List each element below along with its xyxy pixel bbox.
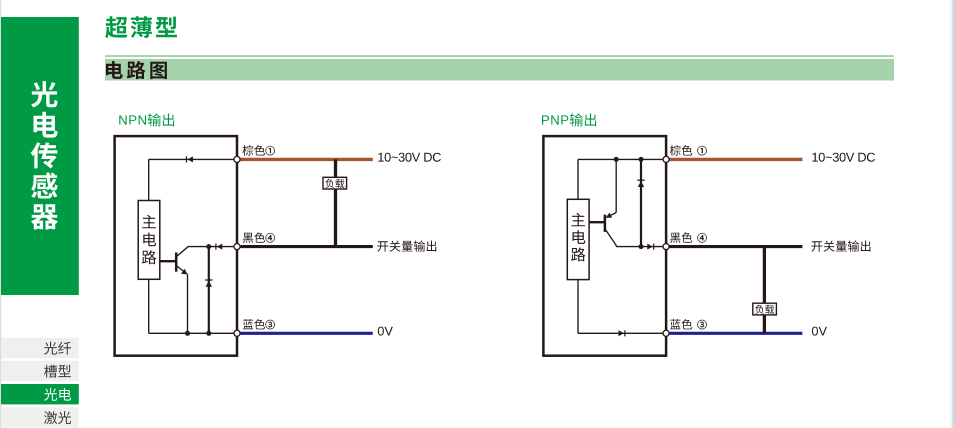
NPN wire label 蓝色③ — [243, 319, 275, 330]
PNP text 0V — [812, 327, 827, 336]
PNP wire label 蓝色③ — [670, 319, 707, 330]
PNP brown wire — [669, 158, 802, 161]
PNP junction dot top 2 — [639, 157, 644, 162]
NPN diode D2 on black line — [217, 244, 222, 250]
NPN black wire — [240, 245, 373, 248]
PNP inner bottom wire — [578, 332, 663, 334]
NPN inner bottom wire — [149, 332, 234, 334]
PNP diode D5 on black line — [647, 244, 652, 250]
PNP terminal brown — [663, 156, 669, 162]
PNP junction dot black line — [639, 244, 644, 249]
PNP main-circuit block 主电路 — [567, 199, 589, 279]
NPN terminal blue — [234, 330, 240, 336]
page right edge shading — [949, 0, 955, 428]
PNP emitter arrowhead — [606, 213, 613, 218]
NPN diode D1 on brown line — [188, 156, 193, 162]
PNP transistor Q2 base bar — [604, 215, 607, 232]
NPN sensor outline box — [115, 136, 237, 356]
PNP wire label 棕色① — [670, 145, 707, 156]
NPN main-circuit block 主电路 — [138, 201, 160, 280]
NPN emitter arrowhead — [181, 269, 188, 275]
green rule — [105, 55, 894, 57]
PNP wire label 黑色④ — [670, 232, 707, 243]
PNP sensor outline box — [543, 136, 666, 356]
label NPN输出 — [119, 113, 174, 126]
PNP protection branch wire — [640, 159, 642, 246]
PNP junction dot top 1 — [614, 157, 619, 162]
sidebar green bar — [1, 17, 79, 295]
NPN junction dot bottom 1 — [185, 331, 190, 336]
NPN terminal black — [234, 244, 240, 250]
NPN load wire — [334, 159, 337, 246]
NPN brown wire — [240, 158, 373, 161]
NPN inner black wire — [188, 246, 235, 248]
PNP text 开关量输出 — [811, 241, 870, 252]
NPN diode D3 upward — [206, 281, 212, 287]
label PNP输出 — [542, 113, 596, 126]
NPN text 10~30V DC — [378, 153, 441, 162]
PNP blue wire — [669, 332, 802, 335]
PNP diode D4 on blue line — [619, 330, 624, 336]
title 超薄型 — [105, 16, 177, 38]
NPN transistor Q1 base bar — [175, 252, 178, 271]
PNP black wire — [669, 245, 802, 248]
NPN junction dot black line — [206, 244, 211, 249]
NPN inner left vertical wire — [148, 159, 150, 333]
NPN wire label 棕色① — [243, 145, 275, 156]
NPN emitter vertical wire — [187, 274, 189, 334]
PNP inner black wire — [616, 246, 663, 248]
NPN transistor Q1 emitter — [177, 266, 186, 273]
PNP transistor Q2 emitter — [607, 213, 616, 218]
PNP terminal black — [663, 244, 669, 250]
NPN blue wire — [240, 332, 373, 335]
banner 电路图 — [105, 59, 894, 81]
PNP emitter vertical wire — [615, 159, 617, 212]
menu item 激光 — [1, 407, 79, 427]
PNP load wire — [763, 247, 766, 334]
NPN text 0V — [378, 327, 393, 336]
menu item 槽型 — [1, 361, 79, 381]
NPN transistor Q1 collector — [177, 247, 188, 257]
menu item 光纤 — [1, 338, 79, 358]
PNP transistor Q2 collector — [606, 230, 617, 247]
PNP inner left vertical wire — [577, 159, 579, 333]
PNP transistor Q2 base lead — [589, 221, 604, 223]
NPN text 开关量输出 — [377, 241, 436, 252]
sidebar vertical text 光电传感器 — [31, 81, 58, 229]
NPN transistor Q1 base lead — [160, 260, 176, 262]
NPN wire label 黑色④ — [243, 232, 275, 243]
NPN junction dot bottom 2 — [206, 331, 211, 336]
PNP diode D6 upward — [638, 181, 644, 187]
NPN terminal brown — [234, 156, 240, 162]
page left edge line — [0, 0, 1, 428]
menu item 光电 — [1, 384, 79, 404]
PNP load box 负载 — [753, 303, 777, 315]
NPN inner top wire — [149, 158, 234, 160]
NPN load box 负载 — [323, 177, 347, 189]
NPN protection branch wire — [208, 247, 210, 334]
PNP text 10~30V DC — [812, 153, 875, 162]
PNP terminal blue — [663, 330, 669, 336]
PNP inner top wire — [578, 158, 663, 160]
